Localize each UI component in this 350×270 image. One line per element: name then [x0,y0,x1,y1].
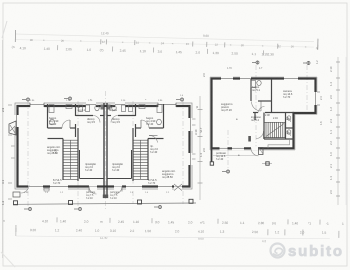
stair treads [266,123,285,138]
window top wall unit L 2 [86,102,96,108]
stairs right building [265,114,286,138]
page left edge shadow [2,40,4,258]
axis flag top mid [64,97,72,101]
windows bottom wall [220,146,228,150]
wc fixture basin [79,105,83,112]
window right wall 2 with sill [188,153,196,165]
dim speck row below bottom wall [24,192,170,194]
wc divider [285,113,287,139]
dim text specks row A (above line) [101,31,209,38]
axis flag bottom [222,170,230,174]
party wall [104,103,107,195]
bagno fixtures [251,81,256,88]
porch post 3 [138,200,142,204]
small ticks row C [58,45,264,55]
dimension line upper [15,34,314,42]
end tick right [317,39,319,50]
axis flag bottom 3 [154,205,162,209]
axis flags top right building [252,61,310,66]
window right wall 1 with sill [188,118,196,131]
wc fixtures [287,116,291,120]
window bottom wall unit R 1 [126,184,142,190]
wc fixture toilet [95,105,99,111]
window bottom wall unit L 1 [28,184,43,190]
wall bagno/camera [271,79,273,112]
window right wall with bay [314,92,318,105]
porch line below building [13,203,196,204]
entrance door bottom wall [251,146,258,150]
axis flag bottom 2 [74,207,82,211]
stair left wall [263,113,265,140]
dim row 2 [30,228,327,235]
porch edge line left [213,155,257,157]
window top wall unit R 1 [115,102,125,108]
door arc wc [93,116,100,123]
axis flag top 2 [176,98,184,102]
tick marks row B [101,39,318,49]
door arc right unit stair top [149,135,158,142]
bagno sink [66,105,72,109]
dim line right of left building [199,96,201,200]
outer wall thick face [18,106,190,187]
interior walls [251,79,294,139]
door arc wc (mirrored) [111,116,118,123]
dim row 1 [3,219,344,226]
LEFT UNIT interior [48,104,105,181]
windows top wall [221,77,298,81]
window top wall unit L 1 [30,102,44,108]
door bottom wall unit L (opens to porch) [89,184,97,195]
stair rails [265,121,286,123]
porch outline lower right [268,139,290,148]
stair door arc [256,131,264,139]
door arc bagno [62,120,70,128]
end tick left [14,30,16,42]
entry step block [259,148,264,155]
axis flag top 1 [22,98,30,102]
small specks near right building top-right [315,60,323,125]
closet wall bottom [80,178,105,180]
window left wall [14,115,19,127]
labels right building [216,85,293,161]
staircase (mirrored) [133,128,164,181]
small dim texts above top wall [30,95,184,102]
outer envelope [212,79,316,149]
porch post left [210,162,213,165]
door arc bagno (mirrored) [141,120,149,128]
window bottom wall unit R 2 [158,184,172,190]
rotated dim numbers [194,127,206,157]
wc fixture bidet [86,105,90,112]
entry hall wall [254,113,256,121]
paper texture [0,0,1,1]
page corner crease [2,21,7,38]
window bottom wall unit L 2 [50,184,68,190]
dim row 3 sparse [100,236,267,243]
exterior step block bottom-left [13,192,20,197]
dim ticks [198,110,203,184]
axis dash-dot lines [228,65,307,170]
wall hall (mirrored) [135,104,137,116]
wall wc bottom [76,115,94,117]
porch post 2 [69,201,73,205]
outer wall thin face [15,103,192,189]
porch post 1 [14,201,18,205]
staircase [48,128,79,181]
axis dash-dot line A [28,91,183,210]
closet walls (mirrored) [131,150,133,179]
dim text stacks below party wall [86,191,120,200]
door bottom wall unit R with swing cross [174,184,182,191]
porch post right [266,162,269,165]
logo circle swirl [271,244,285,258]
left wall extension to porch [211,148,213,162]
thin outer outline [210,77,317,150]
closet wall [79,150,81,179]
door bottom wall unit R (opens to porch) [114,184,122,195]
door arc bottom-left exterior [21,185,29,193]
bagno toilet [50,119,55,125]
wall bagno left (mirrored) [163,104,165,128]
dim text specks row B [30,38,307,49]
bagno tub [49,105,54,113]
axis flag bottom 1 [24,207,32,211]
room labels right unit [109,106,176,185]
door arcs interior [259,107,265,113]
page corner crease bottom-left [1,252,15,267]
window top wall unit R 2 [158,102,176,108]
chimney bay outside left wall [9,121,16,135]
stair bottom corridor wall [264,138,294,140]
porch short line right [262,163,272,165]
wall bagno left [47,104,49,128]
dim text row C (lower numbers) [12,45,274,57]
RIGHT UNIT interior (mirrored) [107,104,164,181]
dimension line lower [15,40,314,48]
room labels left unit [47,106,97,185]
wall living/bagno [250,79,252,101]
stair cut line [266,124,284,137]
wall hall/bagno [75,104,77,116]
wc fixtures (mirrored) [129,105,133,112]
bagno bottom wall [258,100,272,102]
wall bagno bottom [48,127,63,129]
camera bottom wall [253,112,258,114]
svg-text:subito: subito [288,243,344,260]
flue block at party wall [101,105,104,110]
dim row 2 ticks [268,229,339,238]
porch post 4 [189,199,193,203]
step block below bottom wall [44,188,49,191]
